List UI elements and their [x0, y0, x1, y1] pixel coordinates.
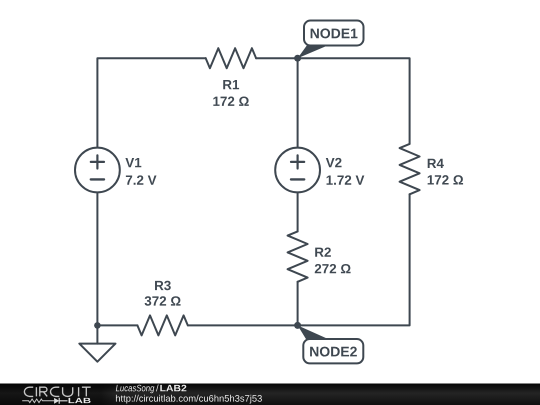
wire: R3 left lead to ground node	[97, 324, 137, 326]
V2 designator label	[326, 158, 342, 167]
R4 designator label	[428, 159, 444, 168]
footer logo panel	[0, 384, 115, 405]
wire: R1 right lead to NODE1 junction	[256, 57, 298, 59]
V2 value label	[327, 175, 365, 184]
wire: V2 bottom terminal to R2 top lead	[297, 192, 299, 231]
wire: R2 bottom lead to NODE2 junction	[297, 282, 299, 326]
R3 designator label	[155, 281, 171, 291]
R2 designator label	[315, 247, 331, 256]
voltage source V2	[275, 148, 320, 193]
wire: V1 bottom terminal down to ground node	[96, 192, 98, 325]
wire: NODE1 junction down to V2 top terminal	[297, 58, 299, 147]
R1 value label	[213, 97, 248, 106]
R4 value label	[428, 175, 463, 184]
node NODE1 junction dot	[294, 55, 301, 62]
NODE1 flag	[298, 21, 364, 59]
CircuitLab logo wordmark CIRCUIT	[24, 387, 90, 396]
wire: R4 bottom lead, bottom-right corner, to NODE2 junction	[298, 194, 410, 325]
resistor R1	[206, 48, 256, 68]
wire: NODE1 junction, top-right corner, to R4 top lead	[298, 58, 410, 144]
ground	[79, 325, 115, 361]
voltage source V1	[75, 148, 120, 193]
V1 designator label	[125, 158, 141, 167]
resistor R4	[400, 144, 420, 194]
NODE2 flag	[298, 325, 364, 363]
CircuitLab logo diode	[54, 398, 67, 404]
footer credit line	[116, 385, 154, 394]
node NODE2 junction dot	[294, 322, 301, 329]
CircuitLab logo wordmark LAB	[69, 398, 91, 403]
wire: V1 top, top-left corner, to R1 left lead	[97, 58, 205, 147]
footer url line	[116, 395, 262, 404]
resistor R2	[288, 231, 308, 281]
CircuitLab logo resistor squiggle	[22, 399, 54, 403]
R3 value label	[145, 296, 181, 306]
V1 value label	[126, 175, 157, 184]
R2 value label	[315, 264, 351, 273]
ground node junction dot	[94, 322, 101, 329]
wire: NODE2 junction left to R3 right lead	[188, 324, 298, 326]
resistor R3	[137, 315, 187, 335]
R1 designator label	[223, 80, 239, 89]
